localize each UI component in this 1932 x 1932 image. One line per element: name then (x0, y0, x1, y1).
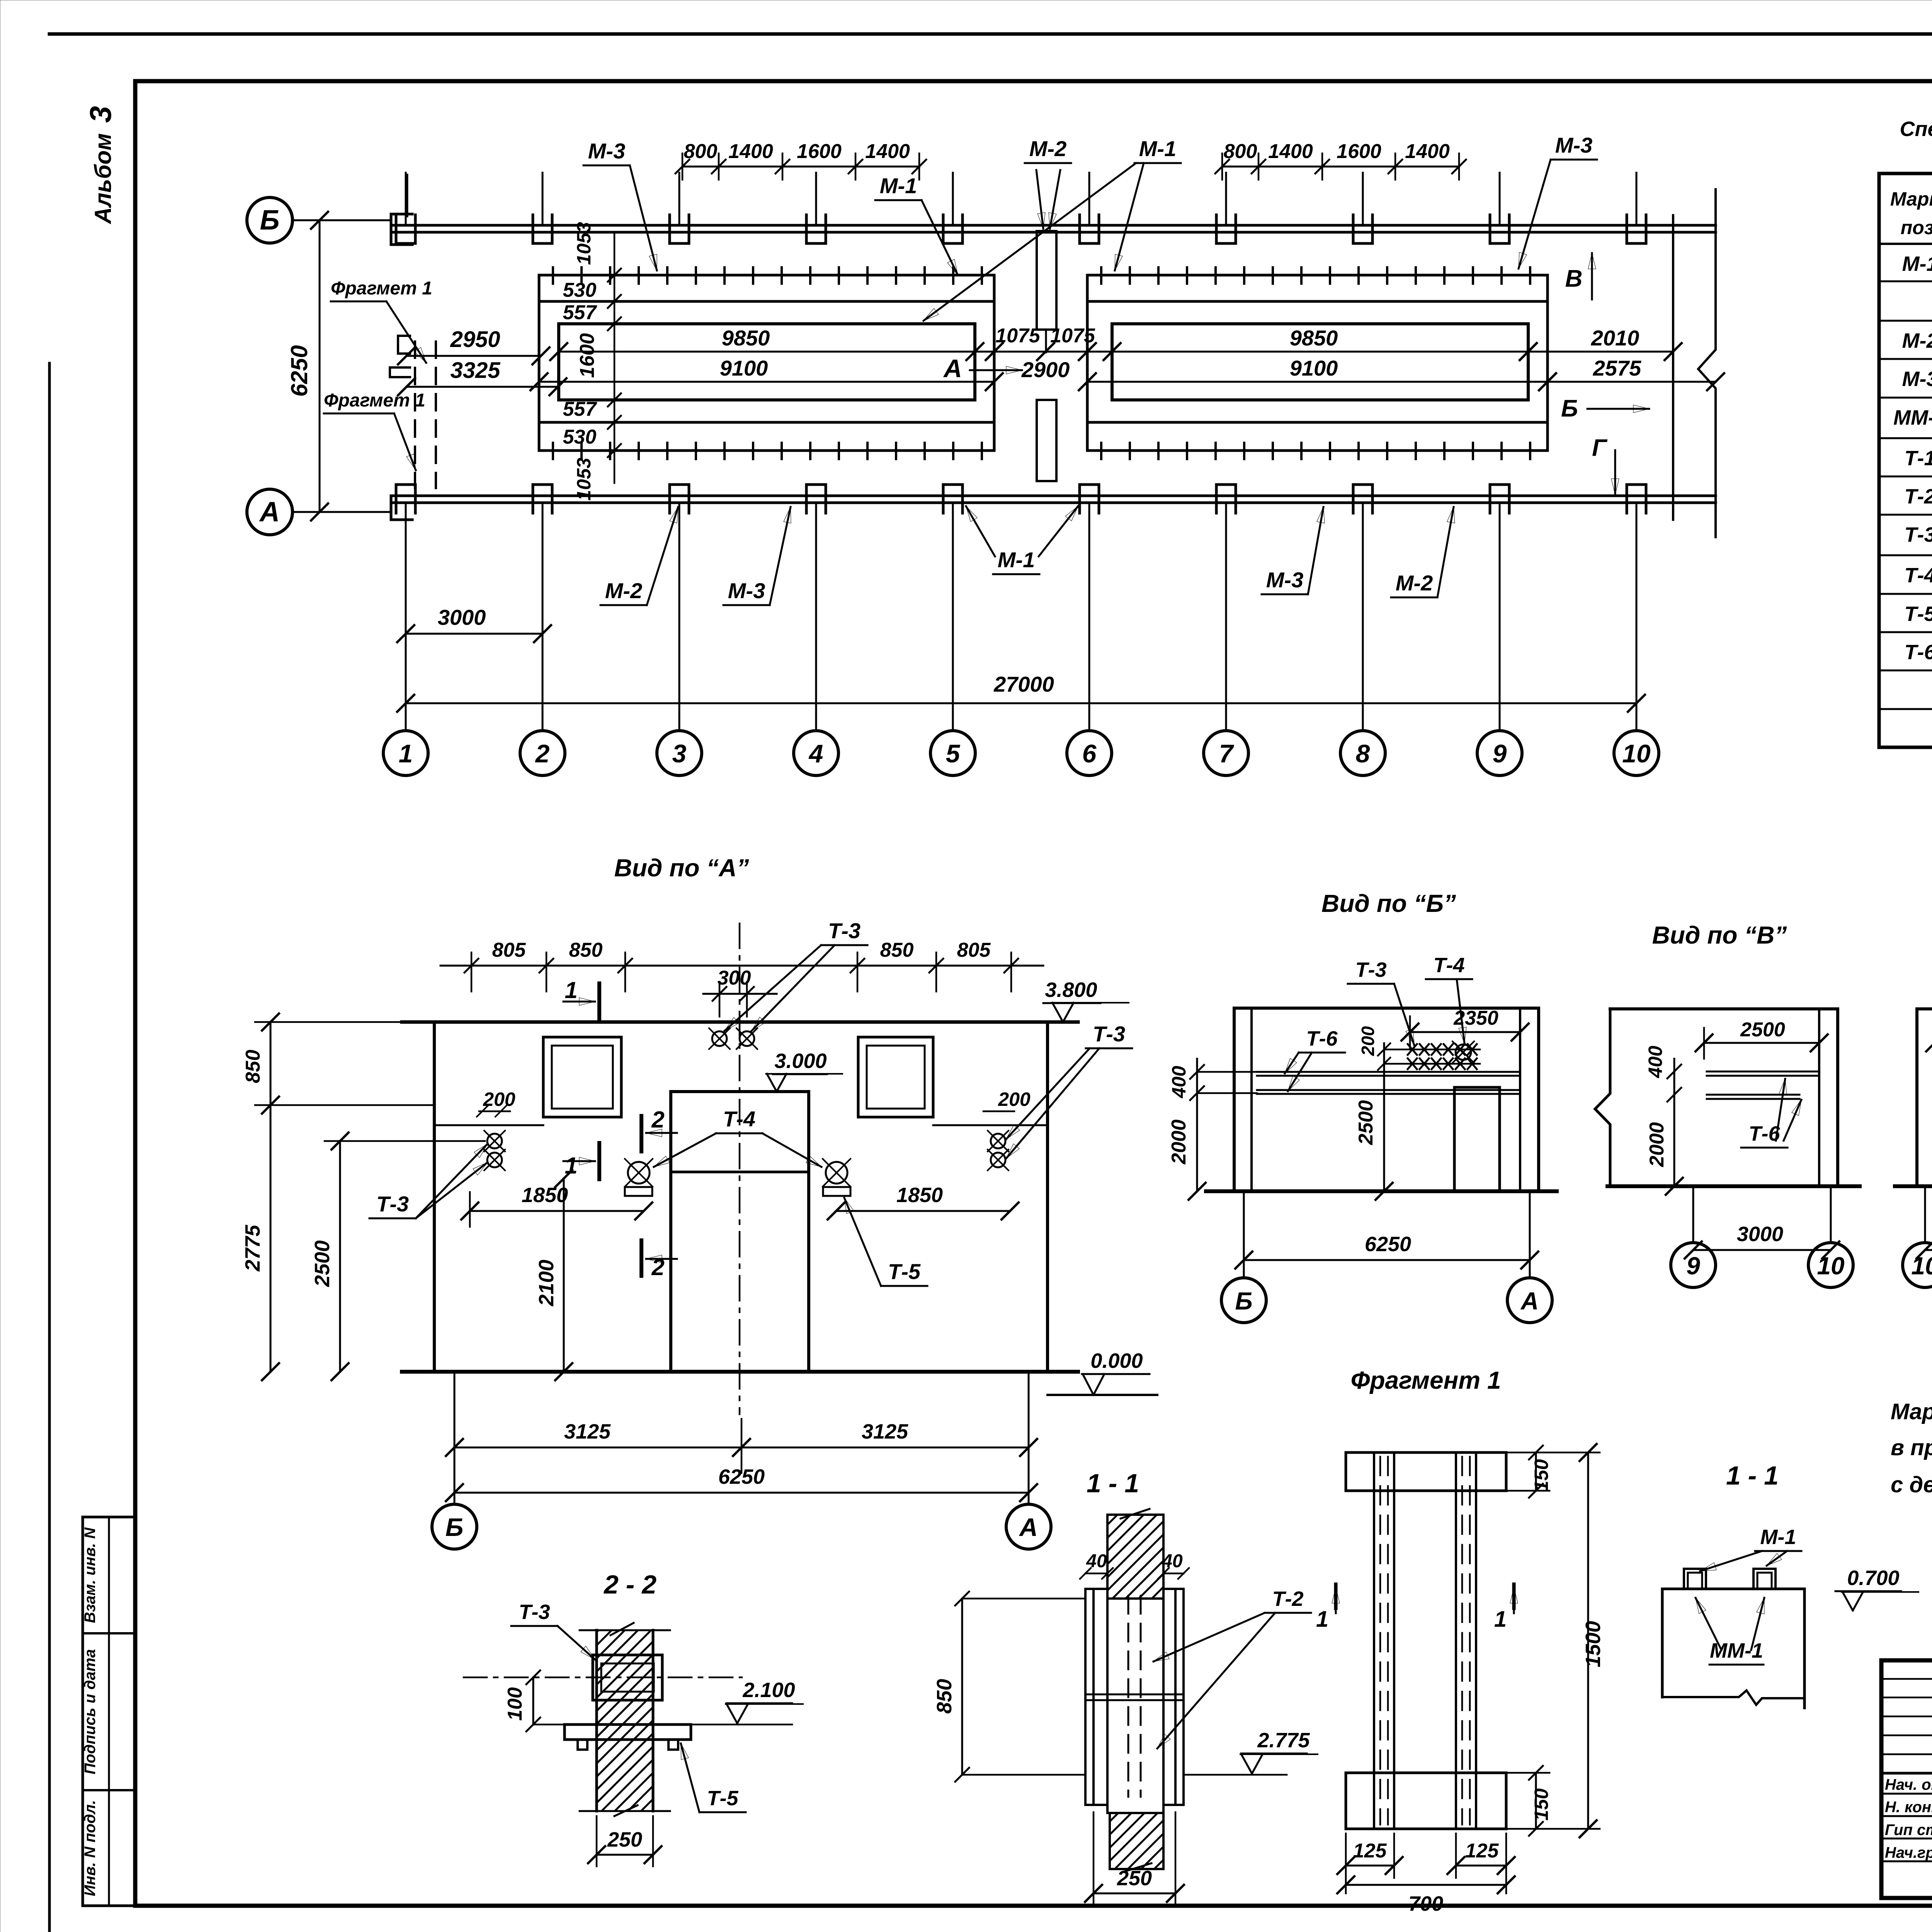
svg-text:Т-5: Т-5 (888, 1259, 921, 1284)
svg-text:3125: 3125 (564, 1420, 611, 1443)
svg-text:2500: 2500 (311, 1240, 334, 1287)
svg-text:557: 557 (563, 398, 597, 420)
svg-text:М-2: М-2 (1396, 571, 1433, 595)
svg-text:3: 3 (672, 739, 687, 768)
svg-text:40: 40 (1162, 1551, 1183, 1571)
svg-text:Спецификация металлоконструкци: Спецификация металлоконструкций в полу и… (1900, 117, 1932, 141)
svg-text:Вид по “Б”: Вид по “Б” (1321, 889, 1456, 917)
svg-text:6250: 6250 (286, 345, 312, 396)
svg-text:Т-3: Т-3 (828, 918, 861, 943)
svg-text:М-2: М-2 (605, 578, 642, 603)
svg-text:805: 805 (957, 939, 991, 961)
svg-text:1053: 1053 (573, 457, 595, 500)
svg-text:150: 150 (1531, 1459, 1552, 1492)
svg-text:700: 700 (1408, 1892, 1443, 1915)
svg-text:2 - 2: 2 - 2 (603, 1570, 656, 1599)
svg-text:9100: 9100 (1290, 356, 1338, 380)
svg-text:125: 125 (1353, 1840, 1387, 1862)
svg-text:200: 200 (998, 1088, 1031, 1110)
svg-text:М-2: М-2 (1029, 136, 1066, 161)
svg-text:с деревянными пробками.: с деревянными пробками. (1891, 1472, 1932, 1497)
svg-text:2.100: 2.100 (742, 1679, 795, 1702)
svg-text:Инв. N подл.: Инв. N подл. (82, 1800, 99, 1896)
svg-text:3.800: 3.800 (1045, 978, 1097, 1002)
svg-text:530: 530 (563, 279, 597, 301)
svg-text:3: 3 (83, 106, 117, 122)
svg-text:0.000: 0.000 (1090, 1349, 1143, 1372)
svg-text:400: 400 (1168, 1066, 1190, 1099)
svg-text:Т-5: Т-5 (707, 1787, 739, 1810)
svg-text:1850: 1850 (896, 1184, 943, 1207)
svg-text:850: 850 (242, 1050, 264, 1083)
svg-text:1 - 1: 1 - 1 (1087, 1469, 1139, 1498)
svg-text:в предварительно просверленные: в предварительно просверленные гнезда d=… (1891, 1435, 1932, 1460)
svg-text:1600: 1600 (1337, 140, 1381, 163)
svg-text:150: 150 (1531, 1788, 1552, 1821)
svg-text:Подпись и дата: Подпись и дата (82, 1649, 99, 1774)
svg-text:А: А (943, 354, 962, 383)
svg-text:2000: 2000 (1646, 1122, 1668, 1167)
svg-text:250: 250 (1117, 1867, 1152, 1890)
svg-text:Т-3: Т-3 (1093, 1022, 1125, 1046)
svg-text:М-2: М-2 (1902, 329, 1932, 352)
svg-text:2900: 2900 (1021, 357, 1070, 382)
svg-text:М-3: М-3 (728, 578, 765, 603)
svg-text:Т-6: Т-6 (1306, 1027, 1338, 1050)
svg-text:0.700: 0.700 (1847, 1566, 1899, 1590)
svg-text:2: 2 (535, 739, 550, 768)
svg-text:9850: 9850 (722, 326, 770, 350)
svg-text:Фрагмет 1: Фрагмет 1 (331, 278, 432, 299)
svg-text:Т-3: Т-3 (1355, 958, 1387, 981)
svg-text:557: 557 (563, 301, 597, 324)
svg-text:Т-5: Т-5 (1905, 602, 1932, 626)
svg-text:530: 530 (563, 426, 597, 448)
svg-text:800: 800 (1224, 140, 1257, 163)
svg-text:2.775: 2.775 (1257, 1729, 1310, 1752)
svg-text:А: А (1019, 1513, 1038, 1541)
svg-text:27000: 27000 (993, 672, 1054, 696)
svg-text:2: 2 (651, 1107, 664, 1133)
svg-text:3000: 3000 (1737, 1223, 1783, 1246)
svg-text:300: 300 (718, 967, 751, 989)
svg-text:800: 800 (684, 140, 718, 163)
svg-text:Т-3: Т-3 (1905, 523, 1932, 546)
svg-text:2500: 2500 (1355, 1100, 1377, 1145)
svg-text:1400: 1400 (1405, 140, 1450, 163)
svg-text:4: 4 (808, 739, 823, 768)
svg-text:1075: 1075 (1050, 325, 1095, 347)
svg-text:2500: 2500 (1740, 1019, 1785, 1041)
svg-text:125: 125 (1465, 1840, 1499, 1862)
svg-text:1 - 1: 1 - 1 (1726, 1461, 1779, 1490)
svg-text:9100: 9100 (720, 356, 768, 380)
svg-text:2775: 2775 (241, 1225, 264, 1272)
svg-text:Т-4: Т-4 (1905, 564, 1932, 587)
svg-text:Марку Т-6 крепить к стенам ш: Марку Т-6 крепить к стенам шурупами 25х4… (1891, 1399, 1932, 1424)
svg-text:поз.: поз. (1901, 217, 1932, 238)
svg-text:М-1: М-1 (998, 548, 1035, 572)
svg-text:1: 1 (1494, 1607, 1507, 1632)
svg-text:Фрагмент 1: Фрагмент 1 (1350, 1366, 1501, 1394)
svg-text:Альбом: Альбом (90, 133, 116, 224)
svg-text:М-3: М-3 (1266, 568, 1303, 592)
svg-text:Марка: Марка (1890, 188, 1932, 210)
svg-text:Вид по “В”: Вид по “В” (1652, 921, 1787, 949)
svg-text:850: 850 (569, 939, 603, 961)
svg-text:Б: Б (260, 205, 280, 236)
svg-text:6: 6 (1082, 739, 1097, 768)
svg-text:Т-4: Т-4 (1434, 954, 1465, 977)
svg-text:Т-3: Т-3 (519, 1600, 550, 1624)
svg-text:1: 1 (399, 739, 413, 768)
svg-text:Т-2: Т-2 (1905, 485, 1932, 508)
svg-text:9: 9 (1493, 739, 1507, 768)
svg-text:7: 7 (1219, 739, 1235, 768)
svg-text:1: 1 (1316, 1607, 1328, 1632)
svg-text:Б: Б (1561, 395, 1578, 422)
svg-text:М-1: М-1 (1760, 1526, 1796, 1549)
svg-text:Нач.гр.: Нач.гр. (1885, 1844, 1932, 1861)
svg-text:10: 10 (1911, 1252, 1932, 1280)
svg-text:2350: 2350 (1453, 1007, 1498, 1029)
svg-text:ММ-1: ММ-1 (1893, 406, 1932, 429)
svg-text:1600: 1600 (576, 333, 599, 378)
svg-text:8: 8 (1356, 739, 1370, 768)
svg-text:850: 850 (933, 1679, 956, 1714)
svg-text:10: 10 (1817, 1252, 1844, 1280)
svg-text:1600: 1600 (797, 140, 842, 163)
svg-text:А: А (259, 497, 280, 527)
svg-text:Н. контр.: Н. контр. (1885, 1799, 1932, 1816)
svg-text:2575: 2575 (1593, 356, 1641, 380)
svg-text:805: 805 (492, 939, 526, 961)
svg-text:М-3: М-3 (588, 139, 625, 163)
svg-text:Фрагмет 1: Фрагмет 1 (324, 390, 425, 411)
svg-text:Б: Б (446, 1513, 464, 1541)
svg-text:5: 5 (946, 739, 961, 768)
svg-text:6250: 6250 (1365, 1233, 1411, 1256)
svg-text:6250: 6250 (718, 1465, 765, 1488)
svg-text:100: 100 (504, 1687, 526, 1721)
svg-text:2000: 2000 (1168, 1119, 1190, 1165)
svg-text:М-1: М-1 (1139, 136, 1176, 161)
svg-text:Вид по “А”: Вид по “А” (614, 854, 749, 882)
svg-text:1400: 1400 (728, 140, 773, 163)
svg-text:3325: 3325 (450, 358, 500, 383)
svg-text:1400: 1400 (865, 140, 910, 163)
svg-text:850: 850 (880, 939, 914, 961)
svg-text:Гип стр.: Гип стр. (1885, 1821, 1932, 1838)
svg-text:Т-2: Т-2 (1272, 1587, 1304, 1611)
svg-text:В: В (1565, 265, 1583, 292)
svg-text:Г: Г (1592, 435, 1608, 461)
svg-text:Т-6: Т-6 (1905, 641, 1932, 664)
svg-text:Т-1: Т-1 (1905, 447, 1932, 470)
svg-text:200: 200 (1358, 1026, 1378, 1056)
svg-text:3000: 3000 (438, 605, 486, 629)
svg-text:Т-6: Т-6 (1749, 1122, 1781, 1145)
svg-text:9: 9 (1686, 1252, 1700, 1280)
svg-text:Взам. инв. N: Взам. инв. N (82, 1527, 99, 1623)
svg-text:250: 250 (607, 1828, 642, 1851)
svg-text:Т-4: Т-4 (723, 1107, 755, 1131)
svg-text:М-1: М-1 (880, 173, 917, 198)
svg-text:1400: 1400 (1268, 140, 1313, 163)
svg-text:М-1: М-1 (1902, 252, 1932, 276)
svg-text:40: 40 (1086, 1551, 1107, 1571)
svg-text:9850: 9850 (1290, 326, 1338, 350)
svg-text:2950: 2950 (450, 327, 500, 352)
svg-text:2: 2 (651, 1254, 664, 1280)
svg-text:Т-3: Т-3 (376, 1192, 409, 1216)
svg-text:М-3: М-3 (1555, 133, 1592, 157)
svg-text:1: 1 (565, 977, 577, 1003)
svg-text:М-3: М-3 (1902, 367, 1932, 391)
svg-text:2100: 2100 (535, 1260, 558, 1306)
svg-text:1500: 1500 (1582, 1621, 1605, 1667)
svg-text:Б: Б (1235, 1287, 1252, 1315)
svg-text:400: 400 (1645, 1046, 1666, 1078)
svg-text:2010: 2010 (1591, 326, 1639, 350)
svg-text:1850: 1850 (522, 1184, 568, 1207)
svg-text:3.000: 3.000 (774, 1049, 827, 1073)
svg-text:3125: 3125 (862, 1420, 908, 1443)
svg-text:1053: 1053 (573, 222, 595, 265)
svg-text:Нач. отд.: Нач. отд. (1885, 1776, 1932, 1793)
svg-text:10: 10 (1622, 739, 1651, 768)
svg-text:А: А (1520, 1287, 1539, 1315)
